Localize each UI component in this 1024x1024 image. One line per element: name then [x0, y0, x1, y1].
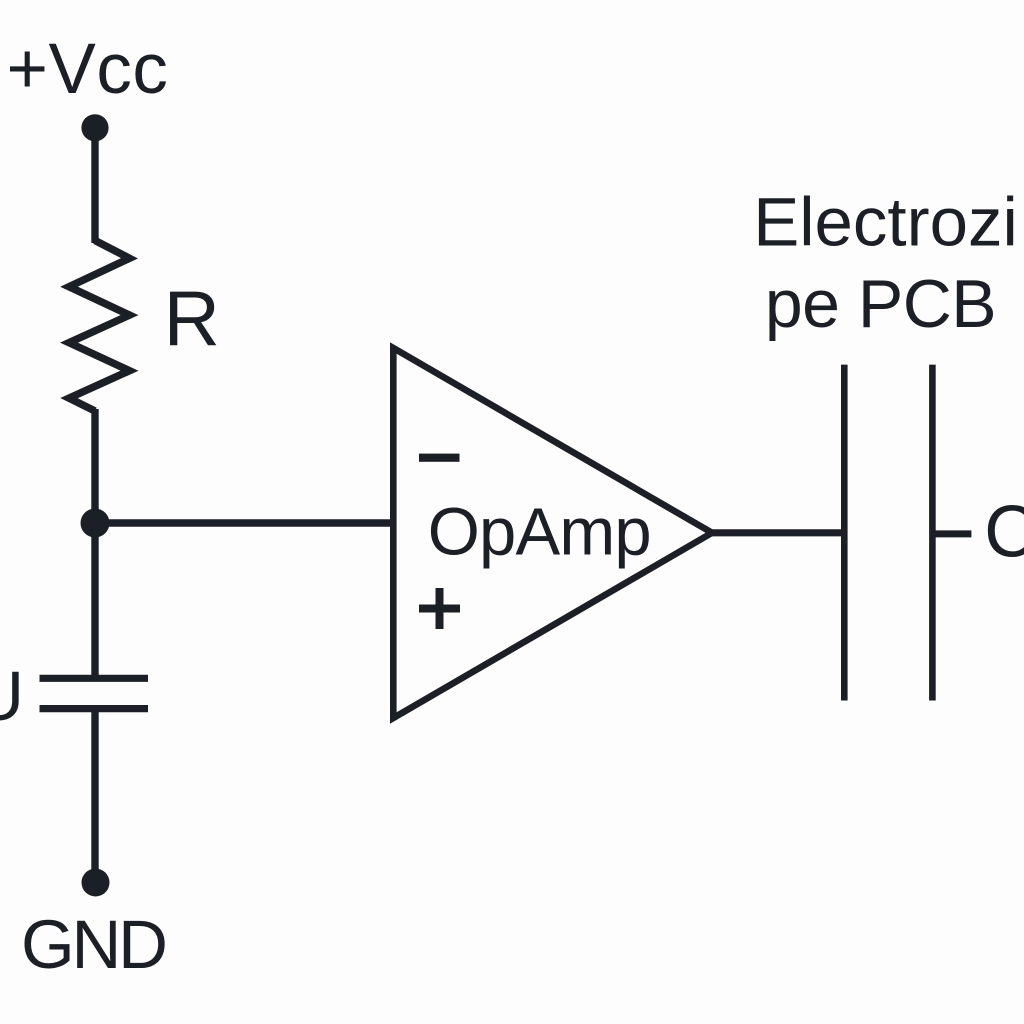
- wire Vcc dot to resistor top: [91, 128, 98, 243]
- wire op-amp output to electrode capacitor: [706, 529, 842, 536]
- resistor R: [69, 241, 130, 412]
- capacitor U bottom plate: [40, 705, 149, 712]
- wire junction to capacitor U top plate: [91, 523, 98, 676]
- svg-text:GND: GND: [21, 906, 165, 983]
- capacitor U top plate: [40, 675, 149, 682]
- svg-text:U: U: [0, 657, 24, 735]
- node Vcc terminal dot: [81, 114, 108, 141]
- capacitor C right plate: [929, 365, 936, 701]
- svg-text:Electrozi: Electrozi: [753, 183, 1018, 260]
- wire junction to op-amp inverting input: [95, 519, 393, 526]
- svg-text:R: R: [164, 275, 220, 363]
- wire capacitor C to label C: [934, 530, 971, 537]
- op-amp plus input sign: [419, 605, 460, 613]
- svg-text:pe PCB: pe PCB: [765, 266, 996, 342]
- op-amp U1 triangle: [393, 348, 712, 718]
- svg-text:C: C: [984, 492, 1024, 573]
- svg-text:+Vcc: +Vcc: [7, 30, 169, 109]
- node junction dot: [81, 509, 110, 538]
- wire capacitor U to GND dot: [91, 710, 98, 882]
- svg-text:OpAmp: OpAmp: [428, 495, 651, 570]
- capacitor C left plate: [841, 365, 848, 701]
- op-amp minus input sign: [419, 454, 460, 462]
- wire resistor bottom to junction: [91, 409, 98, 523]
- node GND terminal dot: [82, 869, 110, 897]
